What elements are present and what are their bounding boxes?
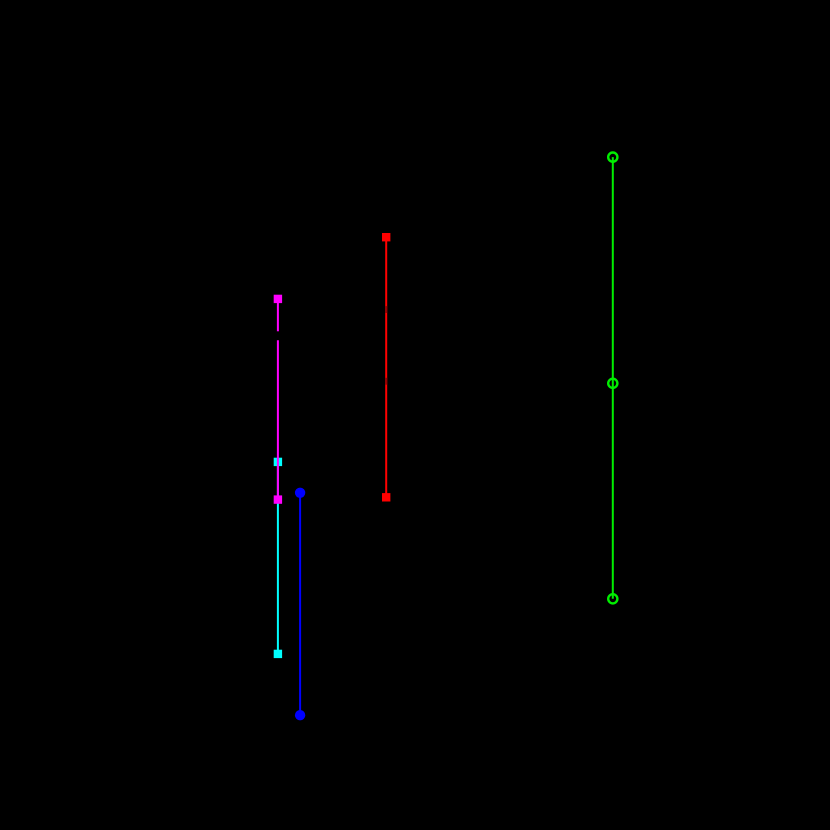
dark red band upper [385, 306, 387, 313]
cyan square marker top [274, 458, 282, 466]
cyan square marker bottom [274, 650, 282, 658]
blue dot marker top [295, 488, 305, 498]
magenta series line lower segment (after gap) [277, 340, 279, 499]
red square marker bottom [382, 493, 390, 501]
green ring marker middle [608, 379, 617, 388]
magenta square marker bottom [274, 495, 282, 503]
cyan series line (vertical) [277, 462, 279, 654]
blue dot marker bottom [295, 710, 305, 720]
green ring marker bottom [608, 594, 617, 603]
green ring marker top [608, 153, 617, 162]
red series line (vertical) [385, 237, 387, 497]
red square marker top [382, 233, 390, 241]
magenta series line upper segment [277, 299, 279, 331]
magenta square marker top [274, 295, 282, 303]
dark red band lower [385, 378, 387, 385]
blue series line (vertical) [299, 493, 301, 715]
green series line (vertical) [612, 157, 614, 599]
